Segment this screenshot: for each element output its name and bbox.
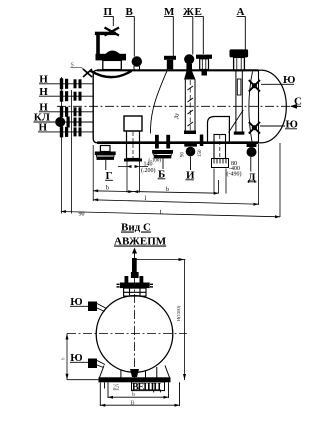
svg-text:В: В xyxy=(131,401,135,407)
svg-text:L: L xyxy=(160,210,164,216)
svg-text:ВЕЩЦ: ВЕЩЦ xyxy=(132,382,161,393)
svg-text:АВЖЕПМ: АВЖЕПМ xyxy=(114,236,167,248)
svg-text:b: b xyxy=(166,187,169,193)
svg-text:Ду: Ду xyxy=(175,113,180,119)
svg-text:150: 150 xyxy=(198,149,203,157)
svg-text:90: 90 xyxy=(181,152,186,158)
svg-text:b: b xyxy=(106,186,109,192)
svg-text:90: 90 xyxy=(79,211,85,217)
svg-text:25: 25 xyxy=(113,385,119,391)
svg-text:(-490): (-490) xyxy=(227,170,242,177)
svg-text:90: 90 xyxy=(153,152,159,157)
svg-text:b: b xyxy=(132,392,135,398)
svg-text:Вид С: Вид С xyxy=(121,222,151,234)
svg-text:(.200): (.200) xyxy=(141,167,156,174)
svg-text:Н(15Ю): Н(15Ю) xyxy=(176,305,181,321)
svg-text:(-100): (-100) xyxy=(149,159,162,164)
